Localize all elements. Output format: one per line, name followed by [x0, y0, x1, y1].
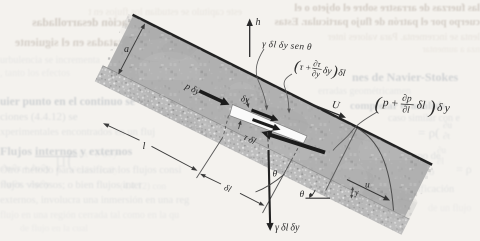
extension line 1 (solid lower part) — [197, 137, 224, 178]
force arrow (p+∂p/∂l·δl)·δy (pressure on right face) — [270, 135, 325, 153]
svg-text:a: a — [124, 44, 129, 55]
svg-text:y: y — [354, 188, 359, 197]
angle arc θ at weight line — [256, 174, 285, 192]
svg-text:p +: p + — [381, 97, 399, 110]
svg-text:l: l — [143, 141, 146, 152]
force arrow (τ+∂τ/∂y·δy)·δl (shear on top face) — [252, 110, 273, 118]
channel bed (stippled strip) — [95, 66, 410, 235]
bed surface boundary line — [103, 66, 410, 220]
leader from (τ+∂τ/∂y δy)δl label — [284, 74, 292, 112]
svg-text:∂p: ∂p — [402, 94, 412, 105]
leader from (p+∂p/∂l δl)δy label — [333, 112, 377, 151]
small arrow y lower half — [351, 192, 354, 196]
free surface line — [133, 15, 433, 165]
svg-text:δl: δl — [416, 99, 425, 112]
angle arc θ with arrowhead (bed slope vs horizontal) — [311, 190, 316, 197]
small arrow y upper half — [351, 189, 354, 193]
velocity profile curve — [358, 128, 394, 210]
weight line γ·δl·δy (dashed upper part through element) — [268, 132, 269, 150]
extension line 2 (solid lower part) — [263, 160, 292, 213]
svg-text:θ: θ — [273, 170, 278, 180]
svg-text:δl: δl — [338, 68, 347, 79]
dimension line l (left half with arrowhead) — [108, 125, 140, 140]
force arrow τ·δl / γ·δl·δy·senθ (lower slope arrow) — [253, 120, 275, 128]
vertical arrow h — [249, 25, 251, 57]
dimension delta-l (left half with arrowhead) — [204, 176, 221, 184]
force arrow p·δy (pressure on left face) — [200, 91, 223, 102]
horizontal reference line for θ — [306, 197, 331, 199]
label (τ + ∂τ/∂y δy) δl — [293, 56, 347, 83]
svg-text:U: U — [331, 100, 342, 112]
extension line from element left face (dashed upper part) — [223, 116, 229, 138]
svg-text:): ) — [427, 97, 436, 118]
dimension arrow a (lower, to bed) — [120, 49, 131, 71]
svg-text:∂y: ∂y — [311, 68, 321, 79]
svg-text:γ δl δy: γ δl δy — [275, 223, 300, 234]
fluid element (white slab) — [230, 105, 308, 144]
water region (inclined channel flow band) — [107, 16, 431, 217]
svg-text:τ +: τ + — [299, 63, 312, 75]
svg-text:∂l: ∂l — [402, 105, 410, 116]
svg-text:γ δl δy sen θ: γ δl δy sen θ — [262, 40, 312, 53]
velocity profile baseline (perpendicular to bed) — [326, 128, 357, 191]
svg-text:u: u — [365, 181, 370, 191]
label (p + ∂p/∂l δl) δy — [374, 92, 452, 120]
weight arrow γ·δl·δy (vertical, downward) — [269, 150, 271, 224]
small dimension arrow delta-y (down to element top face) — [247, 99, 248, 105]
svg-text:δ y: δ y — [437, 102, 451, 115]
velocity arrow U — [311, 104, 340, 116]
dimension arrow a (upper, to free surface) — [132, 28, 143, 50]
dimension line l (right half with arrowhead) — [152, 146, 194, 168]
small dimension arrow delta-y (up to element bottom face) — [239, 124, 241, 129]
svg-text:h: h — [256, 17, 261, 28]
svg-text:δl: δl — [223, 182, 234, 194]
svg-text:θ: θ — [300, 190, 305, 200]
velocity arrow u — [347, 180, 385, 199]
leader from γδlδy·senθ label — [256, 49, 266, 109]
extension line from element right face (dashed upper part) — [292, 144, 301, 161]
dimension delta-l (right half with arrowhead) — [240, 193, 261, 204]
